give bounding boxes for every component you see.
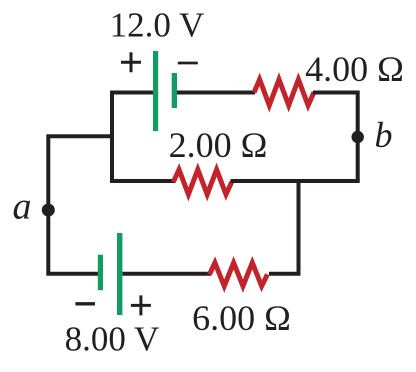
resistor 6.00 ohm xyxy=(210,263,268,286)
resistor 2.00 ohm xyxy=(173,170,231,195)
battery 12.0 V positive plate (long) xyxy=(153,51,158,131)
node b dot xyxy=(352,131,364,143)
svg-text:6.00 Ω: 6.00 Ω xyxy=(192,298,291,338)
wire: top wire right segment and right vertical xyxy=(313,93,358,182)
label 2.00 ohm xyxy=(169,125,268,165)
battery 12.0 V negative plate (short) xyxy=(172,73,177,108)
svg-text:8.00 V: 8.00 V xyxy=(65,320,160,359)
label - terminal of 8.00 V battery xyxy=(75,302,95,305)
battery 8.00 V negative plate (short) xyxy=(98,255,103,291)
wire: middle wire right segment xyxy=(231,179,360,183)
wire: left connector, outer-left vertical and bottom wire left stub xyxy=(48,136,114,273)
label node b xyxy=(375,115,393,155)
svg-text:4.00 Ω: 4.00 Ω xyxy=(305,49,404,89)
label 6.00 ohm xyxy=(192,298,291,338)
node a dot xyxy=(42,204,55,217)
svg-text:b: b xyxy=(375,115,393,155)
label 12.0 V xyxy=(110,6,205,45)
wire: middle-right dropper vertical and bottom wire right stub xyxy=(269,181,299,274)
resistor 4.00 ohm xyxy=(254,79,314,105)
battery 8.00 V positive plate (long) xyxy=(117,233,122,315)
wire: middle wire left segment xyxy=(110,179,175,183)
wire: top wire left segment and inner-left vertical xyxy=(112,93,153,182)
svg-text:12.0 V: 12.0 V xyxy=(110,6,205,45)
svg-text:2.00 Ω: 2.00 Ω xyxy=(169,125,268,165)
label 8.00 V xyxy=(65,320,160,359)
svg-text:a: a xyxy=(13,186,32,228)
label - terminal of 12.0 V battery xyxy=(178,62,198,65)
wire: top wire middle segment xyxy=(177,91,255,95)
label 4.00 ohm xyxy=(305,49,404,89)
label + terminal of 8.00 V battery xyxy=(131,295,151,315)
wire: bottom wire middle segment xyxy=(122,272,211,276)
label node a xyxy=(13,186,32,228)
label + terminal of 12.0 V battery xyxy=(121,52,141,72)
